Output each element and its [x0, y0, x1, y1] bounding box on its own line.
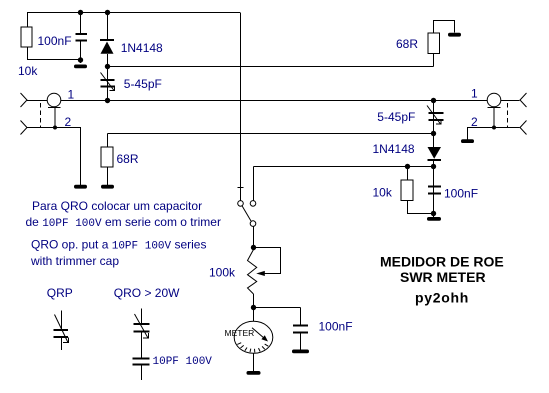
ground under J2 pin2	[461, 139, 474, 143]
resistor R3 68R left body	[101, 147, 113, 167]
wire J1 ground drop	[54, 108, 56, 128]
wire D2 top leg	[433, 134, 435, 148]
wire top rail	[27, 12, 240, 14]
diode D2 1N4148 triangle	[428, 147, 442, 159]
wire C5 bottom leg	[300, 333, 302, 351]
wire J2 pin2 line	[468, 128, 520, 142]
svg-text:1: 1	[471, 87, 478, 101]
connector J1 chevron 1	[21, 93, 28, 107]
trimmer CT2 arrow	[427, 106, 441, 125]
resistor R2 10k right body	[401, 180, 413, 201]
svg-text:SWR METER: SWR METER	[400, 269, 486, 285]
wire 68R right top hook	[434, 21, 455, 34]
connector J1 pin1 tick	[48, 107, 61, 109]
node dot D2 L4	[431, 164, 436, 169]
svg-text:10PF 100V: 10PF 100V	[153, 356, 213, 368]
wire rail L2	[108, 66, 434, 68]
connector J2 chevron 1	[520, 93, 527, 107]
svg-text:with trimmer cap: with trimmer cap	[30, 254, 119, 268]
potentiometer P1 zigzag	[248, 250, 257, 295]
potentiometer P1 wiper arrowhead	[256, 271, 265, 276]
node dot CT2 L3	[431, 131, 436, 136]
wire D2 bottom leg	[433, 161, 435, 167]
capacitor QRO 10PF plates	[133, 358, 150, 360]
wire C5 top leg	[300, 308, 302, 326]
resistor R1 10k body	[21, 27, 32, 47]
wire switch throw to pot	[253, 227, 255, 250]
svg-text:QRP: QRP	[47, 286, 73, 300]
svg-text:QRO op. put a 10PF 100V series: QRO op. put a 10PF 100V series	[31, 238, 206, 253]
wire D1 top leg	[107, 13, 109, 41]
wire R1 bottom leg	[28, 47, 81, 60]
svg-text:100nF: 100nF	[444, 187, 478, 201]
node dot R2 L4	[405, 164, 410, 169]
trimmer CT2 plates	[429, 112, 444, 114]
svg-text:1N4148: 1N4148	[373, 142, 415, 156]
diode D1 1N4148 triangle	[101, 42, 114, 54]
svg-text:MEDIDOR DE ROE: MEDIDOR DE ROE	[380, 254, 504, 270]
wire rail L4	[254, 166, 434, 168]
svg-text:Para QRO colocar um capacitor: Para QRO colocar um capacitor	[32, 199, 202, 213]
switch SW1 pole contact	[238, 201, 244, 207]
resistor R4 68R right body	[428, 33, 440, 54]
diode D1 bar	[100, 39, 114, 41]
trimmer QRO plates	[134, 323, 150, 325]
node dot pot bottom	[251, 305, 256, 310]
node dot D1 CT1	[105, 64, 110, 69]
wire 68R right bottom leg	[433, 54, 435, 67]
ground under meter	[247, 371, 261, 375]
node dot CT1 L1	[105, 98, 110, 103]
svg-text:68R: 68R	[396, 37, 418, 51]
ground under J1 pin2	[74, 185, 87, 189]
switch SW1 blade	[242, 206, 251, 221]
trimmer CT1 plates	[101, 79, 115, 81]
wire J2 ground drop	[493, 108, 495, 128]
wire C1 top leg	[80, 13, 82, 34]
wire node to C5	[254, 307, 301, 309]
wire C1 bottom leg	[80, 41, 82, 63]
svg-text:2: 2	[65, 115, 72, 129]
ground under C5	[292, 350, 309, 354]
svg-text:2: 2	[471, 115, 478, 129]
svg-text:de 10PF 100V em serie com o tr: de 10PF 100V em serie com o trimer	[26, 215, 221, 230]
connector J1 pin1 circle	[47, 93, 61, 107]
wire J1 pin1 stub	[27, 100, 48, 102]
wire 68R left top leg	[107, 134, 109, 148]
wire R2 top leg	[407, 167, 409, 181]
ground under 68R left	[101, 185, 114, 189]
svg-text:100k: 100k	[209, 266, 236, 280]
wire vertical bus to switch	[240, 13, 242, 201]
wire rail L1	[61, 100, 487, 102]
ground under C1	[74, 65, 87, 69]
svg-text:5-45pF: 5-45pF	[124, 77, 162, 91]
connector J2 pin1 tick	[488, 107, 501, 109]
trimmer CT1 arrow	[101, 73, 115, 91]
trimmer QRO arrow	[135, 314, 149, 338]
svg-text:10k: 10k	[373, 186, 393, 200]
connector J2 chevron 2	[520, 121, 527, 135]
wire pot bottom to node	[253, 294, 255, 308]
capacitor C5 100nF plates	[293, 325, 308, 327]
svg-text:py2ohh: py2ohh	[415, 290, 469, 306]
trimmer QRP plates	[54, 329, 69, 331]
node dot top rail C1	[78, 10, 83, 15]
meter M1 needle	[252, 328, 265, 339]
wire CT2 stem	[433, 101, 435, 134]
node dot CT2 L1	[431, 98, 436, 103]
node dot J2 pin2	[492, 126, 496, 130]
wire R1 left leg	[27, 13, 29, 28]
node dot top rail D1	[105, 10, 110, 15]
svg-text:100nF: 100nF	[38, 34, 72, 48]
capacitor C3 100nF plates	[428, 186, 441, 188]
wire C3 stem	[433, 167, 435, 218]
node dot R2 C3 ground	[431, 211, 436, 216]
wire CT1 stem	[107, 67, 109, 101]
trimmer QRP arrow	[55, 315, 69, 343]
switch SW1 throw contact B	[250, 221, 256, 227]
switch SW1 throw contact A	[250, 201, 256, 207]
ground under R2 C3	[427, 217, 441, 221]
connector J2 shield dashes	[507, 103, 509, 128]
wire J1 pin2 line	[27, 128, 81, 186]
connector J2 pin1 circle	[487, 93, 501, 107]
wire J2 pin1 stub	[501, 100, 520, 102]
tick bus break mark	[238, 187, 244, 189]
meter M1 scale ticks	[237, 343, 268, 353]
svg-text:5-45pF: 5-45pF	[377, 110, 415, 124]
wire rail L3	[108, 133, 434, 135]
svg-text:METER: METER	[225, 328, 255, 338]
wire L4 to switch contact	[253, 167, 255, 201]
connector J1 shield dashes	[40, 103, 42, 128]
node dot pot top	[251, 245, 256, 250]
wire QRP trimmer stem	[61, 311, 63, 330]
wire R2 bottom leg	[408, 201, 434, 214]
svg-text:10k: 10k	[18, 64, 38, 78]
wire node to meter	[253, 308, 255, 322]
node dot J1 pin2	[53, 126, 57, 130]
svg-text:68R: 68R	[117, 152, 139, 166]
connector J1 chevron 2	[21, 121, 28, 135]
svg-text:1: 1	[68, 88, 75, 102]
diode D2 bar	[428, 159, 442, 161]
svg-text:100nF: 100nF	[319, 320, 353, 334]
wire 68R left bottom leg	[107, 167, 109, 185]
wire meter to ground	[253, 354, 255, 372]
wire D1 bottom leg	[107, 54, 109, 67]
wire QRO trimmer stem	[141, 309, 143, 324]
svg-text:1N4148: 1N4148	[121, 41, 163, 55]
svg-text:QRO > 20W: QRO > 20W	[114, 286, 180, 300]
capacitor C1 100nF plates	[76, 33, 88, 35]
node dot R1 C1 ground	[78, 57, 83, 62]
wire pot wiper loop	[254, 248, 281, 274]
ground at 68R right	[448, 33, 461, 37]
meter M1 needle arrowhead	[261, 335, 268, 341]
meter M1 body	[234, 321, 273, 353]
